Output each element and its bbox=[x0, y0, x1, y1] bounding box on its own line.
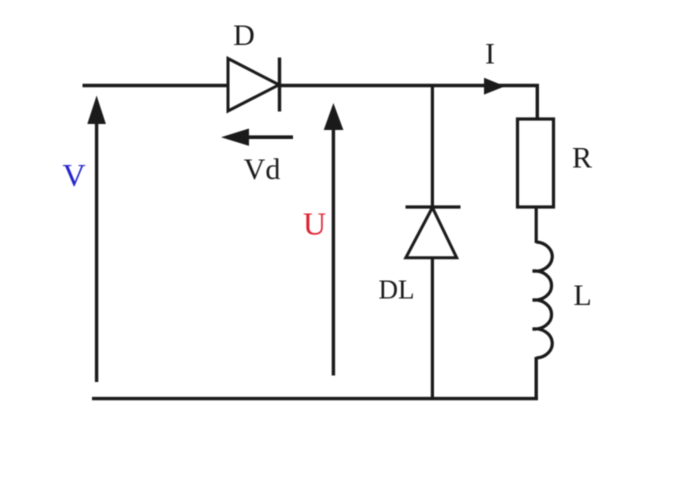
svg-text:U: U bbox=[303, 206, 326, 242]
arrow Vd bbox=[221, 129, 293, 146]
wire between R and L bbox=[535, 206, 538, 243]
svg-text:D: D bbox=[233, 19, 255, 52]
arrow U bbox=[324, 103, 344, 376]
wire DL top bbox=[431, 84, 434, 208]
wire DL bottom bbox=[431, 257, 434, 400]
resistor R bbox=[518, 119, 554, 207]
svg-text:V: V bbox=[62, 157, 85, 193]
svg-text:DL: DL bbox=[379, 275, 415, 305]
svg-text:L: L bbox=[573, 279, 591, 312]
wire right vertical top bbox=[536, 84, 539, 120]
inductor L bbox=[533, 242, 553, 358]
svg-text:Vd: Vd bbox=[244, 153, 281, 186]
current arrowhead I bbox=[484, 78, 505, 95]
wire bottom bbox=[92, 397, 538, 400]
arrow V bbox=[87, 96, 106, 383]
wire top-left segment bbox=[83, 84, 230, 87]
svg-text:R: R bbox=[572, 142, 592, 175]
diode DL bbox=[406, 207, 461, 258]
svg-text:I: I bbox=[485, 38, 495, 71]
wire below L bbox=[535, 357, 538, 400]
wire top-right segment bbox=[279, 84, 539, 87]
diode D bbox=[228, 58, 280, 112]
